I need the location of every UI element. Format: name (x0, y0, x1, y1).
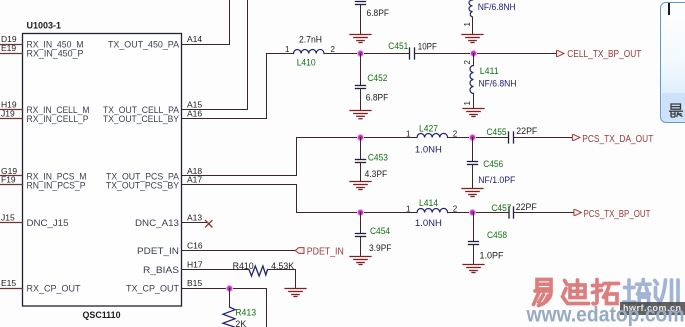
wire B15 junction down to R413 (229, 289, 231, 308)
wire pin B15 TX_CP_OUT (182, 289, 267, 327)
junction node CELL rail / L411 (470, 50, 477, 57)
capacitor C458 (473, 213, 475, 242)
ground below C458 (463, 265, 484, 273)
wire pin H17 (182, 269, 250, 271)
junction node CELL rail / C452 (357, 50, 364, 57)
port PCS_TX_BP_OUT symbol (574, 210, 582, 216)
wire pin J19 (0, 118, 23, 120)
watermark character 拓 (drawn strokes) (593, 280, 619, 304)
wire pin A15 to top edge (182, 0, 248, 110)
wire pin E19 (0, 53, 23, 55)
ground below top inductor (462, 35, 483, 43)
port PCS_TX_DA_OUT symbol (572, 135, 580, 141)
wire C455 to port (514, 137, 572, 139)
PCS BP rail wire right segment (448, 212, 509, 214)
port CELL_TX_BP_OUT symbol (557, 51, 565, 57)
port PDET_IN symbol (295, 248, 304, 254)
capacitor C455 (509, 132, 514, 143)
wire pin H19 (0, 109, 23, 111)
resistor R410 (249, 266, 268, 276)
junction node BP rail / C454 (357, 209, 364, 216)
inductor L411 (473, 54, 475, 66)
CELL rail wire right segment (415, 53, 556, 55)
ground below L411 (463, 109, 484, 117)
inductor NF/6.8NH top (cropped) (469, 0, 472, 17)
capacitor C451 (410, 48, 415, 59)
wire pin A16 up to CELL rail (182, 54, 267, 119)
wire pin F19 (0, 184, 23, 186)
capacitor C452 (360, 54, 362, 86)
inductor L427 (417, 133, 448, 137)
ground below R410 (285, 289, 306, 297)
inductor L410 (294, 49, 325, 53)
wire pin J15 (0, 222, 23, 224)
op-amp U1003-1 IC body (23, 34, 182, 307)
resistor R413 (223, 307, 235, 327)
browser panel text 最 (drawn strokes) (669, 104, 683, 117)
watermark 易迪拓培训 www.edatop.com (620, 302, 685, 315)
watermark character 训 (drawn strokes) (655, 280, 678, 304)
capacitor C456 (472, 138, 474, 162)
junction node DA rail / C456 (469, 134, 476, 141)
inductor L414 (417, 208, 448, 212)
wire pin A14 to top edge (182, 0, 230, 45)
junction node BP rail / C458 (469, 209, 476, 216)
junction node DA rail / C453 (357, 134, 364, 141)
no-connect X on A13 (206, 221, 213, 228)
PCS BP rail wire left segment (297, 212, 418, 214)
capacitor C457 (509, 207, 514, 218)
CELL rail wire mid segment (324, 53, 410, 55)
wire pin D19 (0, 44, 23, 46)
PCS DA rail wire right segment (448, 137, 509, 139)
wire pin C16 to PDET_IN port (182, 250, 296, 252)
capacitor C454 (360, 213, 362, 234)
watermark character 培 (drawn strokes) (624, 280, 651, 305)
ground below C454 (350, 257, 371, 265)
blue overlay panel (660, 2, 685, 123)
watermark character 迪 (drawn strokes) (563, 280, 589, 304)
PCS DA rail wire left segment (297, 137, 418, 139)
ground below top capacitor (350, 35, 371, 43)
ground below C456 (462, 189, 483, 197)
wire pin G19 (0, 175, 23, 177)
svg-text:www.edatop.com: www.edatop.com (526, 303, 685, 327)
ground below C452 (350, 111, 371, 119)
wire pin E15 (0, 288, 23, 290)
wire pin A13 stub (182, 222, 208, 224)
wire pin A18 up to PCS DA rail (182, 138, 297, 176)
junction node at B15 / R413 (226, 285, 233, 292)
watermark character 易 (drawn strokes) (534, 280, 552, 306)
wire R410 to ground (268, 270, 296, 289)
CELL rail wire left segment (267, 53, 294, 55)
wire pin A17 down to PCS BP rail (182, 185, 297, 213)
ground below C453 (350, 182, 371, 190)
capacitor C453 (360, 138, 362, 160)
wire C457 to port (514, 212, 574, 214)
capacitor 6.8PF top (cropped) (356, 2, 366, 5)
